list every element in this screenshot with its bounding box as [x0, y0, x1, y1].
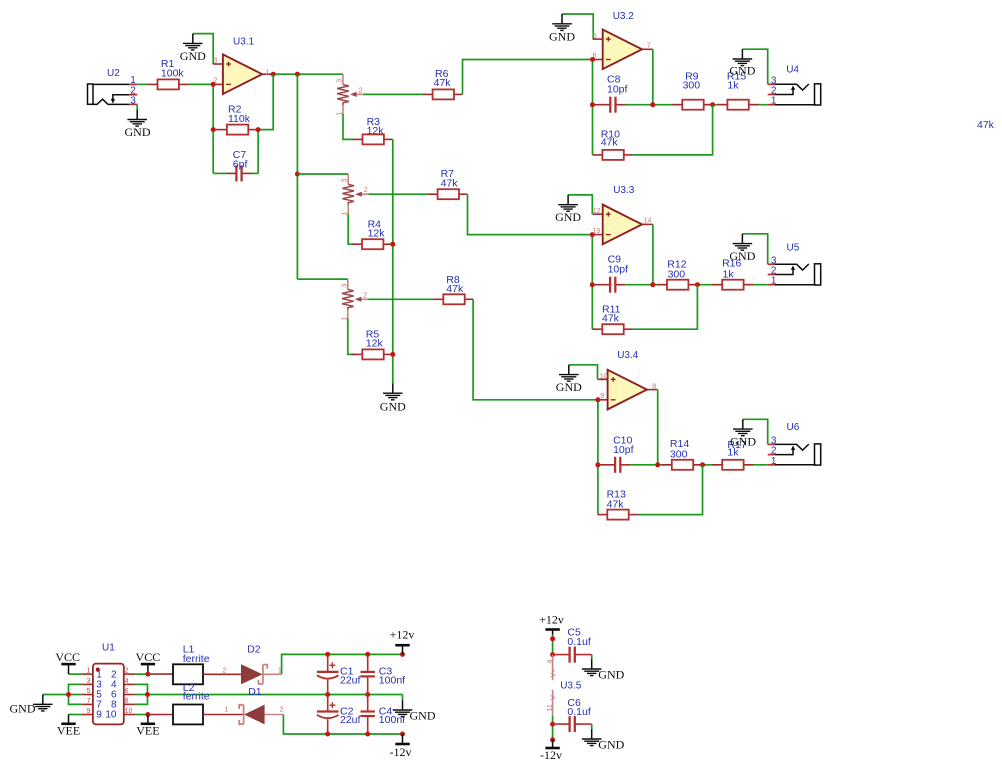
wire pin6 to loop	[135, 694, 148, 696]
svg-text:D1: D1	[248, 686, 262, 698]
node R9/R15/R10 junction	[710, 102, 715, 107]
ground above U3.3	[555, 195, 581, 224]
capacitor C7	[226, 149, 251, 181]
svg-text:GND: GND	[125, 125, 151, 139]
wire U3.2 pin5 to ground	[562, 14, 593, 39]
svg-text:10: 10	[600, 374, 608, 381]
svg-text:47k: 47k	[441, 177, 459, 189]
svg-text:VCC: VCC	[136, 650, 161, 664]
capacitor C2	[317, 695, 361, 735]
resistor R2	[213, 103, 258, 134]
node C5 junction	[550, 652, 555, 657]
jack U5	[768, 242, 821, 286]
potentiometer P3	[341, 279, 368, 321]
op-amp U3.4	[598, 350, 658, 409]
wire U3.3 output down to feedback row	[652, 224, 654, 284]
svg-text:10: 10	[105, 710, 117, 721]
node C9 left	[590, 282, 595, 287]
svg-text:47k: 47k	[601, 137, 619, 149]
node R14/R17/R13 junction	[700, 462, 705, 467]
resistor R5	[352, 328, 393, 359]
node feedback branch	[271, 72, 276, 77]
svg-text:0.1uf: 0.1uf	[567, 706, 590, 718]
svg-text:1k: 1k	[727, 447, 739, 459]
wire D1 to bottom rail	[283, 715, 327, 735]
svg-text:100nf: 100nf	[379, 675, 405, 687]
node C4 bottom	[365, 732, 370, 737]
svg-text:+12v: +12v	[539, 612, 564, 626]
ferrite L1	[148, 644, 210, 685]
node U3.2 inverting input	[590, 57, 595, 62]
svg-text:8: 8	[652, 383, 656, 390]
svg-text:22uf: 22uf	[340, 714, 361, 726]
wire vertical R2 right to C7 right	[257, 130, 259, 174]
wire R10 feedback loop	[633, 105, 713, 155]
svg-text:U3.4: U3.4	[617, 350, 639, 361]
ground at U4	[729, 49, 755, 77]
supply -12v	[390, 734, 412, 759]
svg-text:10pf: 10pf	[607, 83, 628, 95]
svg-text:0.1uf: 0.1uf	[567, 636, 590, 648]
pin V+ of U3.5	[547, 655, 558, 681]
svg-text:U3.5: U3.5	[560, 681, 582, 692]
ground right of C4	[393, 695, 436, 723]
svg-text:GND: GND	[729, 63, 755, 77]
svg-text:1k: 1k	[727, 79, 739, 91]
wire U3.3 feedback vertical	[591, 235, 593, 330]
svg-text:12k: 12k	[366, 338, 384, 350]
svg-text:10: 10	[125, 708, 133, 715]
wire U3.4 pin10 to ground	[569, 365, 598, 380]
svg-text:300: 300	[670, 448, 688, 460]
resistor R13	[598, 488, 639, 519]
ground above U3.2	[549, 14, 575, 43]
ground at C6	[582, 729, 625, 751]
svg-text:4: 4	[125, 678, 129, 685]
svg-text:GND: GND	[10, 702, 36, 716]
potentiometer P2	[342, 174, 369, 216]
resistor R4	[352, 218, 393, 249]
svg-text:300: 300	[683, 79, 701, 91]
ground at U5	[729, 234, 755, 263]
svg-text:6: 6	[593, 53, 597, 60]
ground at C5	[582, 659, 625, 681]
wire R8 to U3.4 inverting input	[473, 299, 598, 400]
wire pin11 to -12v	[552, 716, 554, 740]
svg-text:9: 9	[87, 708, 91, 715]
supply VEE right	[136, 715, 159, 738]
svg-text:47k: 47k	[977, 119, 995, 131]
capacitor C3	[361, 654, 406, 694]
wire pot2 wiper to R7	[369, 193, 429, 195]
op-amp U3.2	[593, 11, 653, 69]
svg-text:12: 12	[593, 208, 601, 215]
svg-text:10pf: 10pf	[608, 264, 629, 276]
resistor R6	[423, 68, 463, 100]
svg-text:11: 11	[547, 704, 554, 711]
wire pot1 wiper to R6	[363, 93, 423, 95]
supply -12v at U3.5	[540, 740, 562, 762]
ground above U3.1	[180, 34, 206, 64]
svg-text:VEE: VEE	[136, 724, 159, 738]
node C8 left	[590, 102, 595, 107]
svg-text:6pf: 6pf	[233, 159, 248, 171]
capacitor C4	[361, 695, 406, 735]
svg-text:12k: 12k	[368, 228, 386, 240]
wire C10 right to R14 row	[630, 464, 767, 466]
wire C7 left lead green part	[213, 172, 227, 174]
capacitor C8	[593, 74, 628, 113]
ground at U6	[730, 419, 756, 448]
node U3.4 inverting input	[595, 397, 600, 402]
wire U3.3 pin12 to ground	[568, 195, 592, 214]
svg-text:47k: 47k	[434, 77, 452, 89]
node supply junction bottom	[550, 737, 555, 742]
pin V- of U3.5	[547, 690, 558, 716]
svg-text:U2: U2	[107, 68, 120, 79]
node R2 right	[256, 127, 261, 132]
svg-text:300: 300	[668, 269, 686, 281]
wire U3.2 feedback vertical	[592, 60, 594, 155]
diode D2	[203, 644, 282, 685]
wire C9 right to R12 row	[625, 284, 767, 286]
svg-text:GND: GND	[730, 435, 756, 449]
resistor R8	[433, 274, 473, 305]
svg-text:9: 9	[96, 710, 102, 721]
svg-text:+12v: +12v	[390, 628, 415, 642]
svg-text:U5: U5	[787, 242, 800, 253]
svg-text:12k: 12k	[367, 125, 385, 137]
svg-text:47k: 47k	[602, 313, 620, 325]
wire branch to pot2	[297, 173, 348, 175]
svg-text:2: 2	[223, 667, 227, 674]
jack U4	[768, 65, 821, 107]
wire C8 right to R9 row	[626, 104, 768, 106]
node -12v rail	[400, 732, 405, 737]
capacitor C10	[598, 434, 634, 472]
node +12v rail	[400, 652, 405, 657]
node right loop	[145, 692, 150, 697]
wire U3.4 output down to feedback row	[657, 390, 659, 465]
svg-text:7: 7	[87, 698, 91, 705]
svg-text:2: 2	[125, 668, 129, 675]
resistor R11	[592, 303, 633, 334]
wire U3.1 pin3 to ground	[193, 34, 213, 64]
svg-text:2: 2	[280, 707, 284, 714]
wire right loop pins 4-6-8	[135, 684, 148, 704]
wire VCC left to pin1	[69, 673, 82, 675]
svg-text:VCC: VCC	[55, 650, 80, 664]
node C6 junction	[550, 722, 555, 727]
svg-text:3: 3	[87, 678, 91, 685]
supply VCC right	[136, 650, 161, 674]
svg-text:U1: U1	[102, 643, 115, 654]
potentiometer P1	[337, 74, 364, 116]
wire R7 to U3.3 inverting input	[468, 194, 593, 234]
wire R6 to U3.2 inverting input	[463, 60, 593, 95]
node C3 top	[365, 652, 370, 657]
op-amp U3.1	[213, 37, 273, 94]
capacitor C6	[553, 697, 592, 732]
resistor R10	[593, 129, 633, 160]
node R5 right on ground bus	[390, 352, 395, 357]
ground above U3.4	[556, 365, 582, 394]
svg-text:V+: V+	[551, 669, 558, 678]
svg-text:U6: U6	[787, 422, 800, 433]
wire U3.2 output down to feedback row	[652, 49, 654, 104]
svg-text:GND: GND	[555, 210, 581, 224]
svg-text:4: 4	[547, 660, 554, 664]
wire branch to pot3	[297, 278, 347, 280]
op-amp U3.3	[592, 185, 653, 244]
wire left loop pins 3-5-7	[69, 684, 82, 704]
supply VEE left	[57, 715, 80, 738]
svg-text:GND: GND	[410, 708, 436, 722]
node VCC right	[145, 672, 150, 677]
node branch to pot2	[295, 172, 300, 177]
svg-text:GND: GND	[556, 380, 582, 394]
svg-text:1: 1	[130, 75, 136, 86]
diode D1	[203, 686, 284, 724]
svg-text:7: 7	[647, 43, 651, 50]
svg-text:47k: 47k	[607, 499, 625, 511]
connector U1	[82, 643, 135, 725]
wire C6 to ground	[591, 724, 593, 729]
node U3.3 inverting input	[590, 232, 595, 237]
wire main signal vertical	[296, 74, 298, 279]
node U3.2 output junction	[650, 102, 655, 107]
wire U3.4 feedback vertical	[597, 400, 599, 515]
svg-text:V-: V-	[551, 693, 558, 700]
svg-text:100nf: 100nf	[379, 714, 405, 726]
node C1 mid	[325, 692, 330, 697]
svg-text:22uf: 22uf	[340, 675, 361, 687]
svg-text:GND: GND	[729, 249, 755, 263]
svg-text:GND: GND	[549, 29, 575, 43]
wire pot3 bottom to R5	[348, 319, 356, 355]
jack U6	[768, 422, 821, 467]
wire pot2 bottom to R4	[348, 214, 356, 245]
svg-text:GND: GND	[598, 737, 624, 751]
svg-text:14: 14	[644, 218, 652, 225]
resistor R3	[353, 116, 393, 145]
svg-text:1: 1	[265, 70, 269, 77]
node C3 mid	[365, 692, 370, 697]
wire pin10 to VEE right	[135, 714, 148, 716]
svg-text:GND: GND	[180, 49, 206, 63]
resistor R14	[662, 438, 703, 470]
svg-text:10pf: 10pf	[613, 444, 634, 456]
supply +12v	[390, 628, 415, 655]
wire D2 cathode to top rail	[282, 654, 328, 674]
svg-text:-12v: -12v	[390, 745, 412, 759]
node C1 top	[325, 652, 330, 657]
node R4 right on ground bus	[390, 242, 395, 247]
wire VEE left to pin9	[69, 714, 82, 716]
wire pin2 to VCC right	[135, 673, 148, 675]
node R12/R16/R11 junction	[695, 282, 700, 287]
wire R11 feedback loop	[633, 285, 698, 330]
node supply junction top	[550, 636, 555, 641]
wire U6 pin3 to ground	[743, 419, 768, 444]
wire pot1 bottom to R3	[343, 114, 353, 139]
wire U2 pin1 to R1	[137, 83, 148, 85]
svg-text:3: 3	[213, 57, 217, 64]
capacitor C5	[553, 626, 592, 662]
svg-text:3: 3	[130, 95, 136, 106]
wire ground mid rail	[148, 694, 403, 696]
wire U3.1 output to feedback branch	[273, 73, 343, 75]
resistor R16	[712, 257, 753, 289]
svg-text:5: 5	[593, 33, 597, 40]
ground below U2	[125, 110, 151, 139]
svg-text:9: 9	[600, 393, 604, 400]
wire U4 pin3 to ground	[742, 49, 767, 84]
wire top rail	[328, 653, 403, 655]
resistor R15	[717, 70, 758, 109]
svg-text:U4: U4	[786, 65, 799, 76]
svg-text:2: 2	[213, 77, 217, 84]
wire C7 right lead green part	[251, 172, 258, 174]
ground left of U1	[10, 695, 53, 716]
svg-text:110k: 110k	[228, 113, 251, 125]
node C10 left	[595, 462, 600, 467]
wire R13 feedback loop	[639, 465, 703, 515]
node VEE right	[145, 712, 150, 717]
svg-text:ferrite: ferrite	[183, 653, 210, 665]
svg-text:1: 1	[224, 707, 228, 714]
resistor R17	[712, 439, 753, 470]
svg-text:D2: D2	[247, 644, 261, 656]
resistor R1	[148, 58, 189, 89]
node R2 left	[211, 127, 216, 132]
svg-text:1k: 1k	[723, 269, 735, 281]
ground below pots	[380, 383, 406, 413]
supply +12v at U3.5	[539, 612, 564, 635]
svg-text:VEE: VEE	[57, 724, 80, 738]
ferrite L2	[148, 682, 210, 725]
supply VCC left	[55, 650, 80, 674]
wire C5 to ground	[591, 655, 593, 660]
svg-text:GND: GND	[380, 400, 406, 414]
wire ground bus vertical	[392, 139, 394, 383]
resistor R7	[428, 168, 468, 199]
svg-text:13: 13	[592, 228, 600, 235]
wire U2 pin3 to ground	[136, 104, 138, 109]
svg-text:GND: GND	[598, 667, 624, 681]
wire +12v to pin4	[552, 635, 554, 655]
wire R1 to U3.1 inverting input	[188, 83, 213, 85]
resistor R9	[672, 70, 712, 109]
svg-text:6: 6	[125, 688, 129, 695]
svg-text:47k: 47k	[446, 283, 464, 295]
node U3.4 output junction	[655, 462, 660, 467]
svg-text:-12v: -12v	[540, 748, 562, 762]
wire pin5 to ground left	[43, 694, 82, 696]
wire bottom rail	[328, 733, 403, 735]
node main signal branch at output row	[295, 72, 300, 77]
node left loop	[66, 692, 71, 697]
svg-text:100k: 100k	[161, 68, 185, 80]
wire U5 pin3 to ground	[742, 234, 767, 264]
node: U3.1 inverting input vertical	[212, 84, 214, 173]
jack U2	[88, 68, 138, 107]
wire feedback down to R2 right	[258, 74, 273, 129]
node U3.3 output junction	[650, 282, 655, 287]
svg-text:8: 8	[125, 698, 129, 705]
svg-text:ferrite: ferrite	[183, 690, 210, 702]
svg-text:U3.1: U3.1	[233, 37, 255, 48]
svg-text:U3.2: U3.2	[613, 11, 635, 22]
node C2 bottom	[325, 732, 330, 737]
svg-text:5: 5	[87, 688, 91, 695]
capacitor C9	[592, 254, 628, 293]
wire pot3 wiper to R8	[368, 298, 434, 300]
resistor R12	[657, 258, 697, 289]
capacitor C1	[317, 654, 361, 694]
svg-text:1: 1	[87, 668, 91, 675]
svg-text:U3.3: U3.3	[613, 185, 635, 196]
